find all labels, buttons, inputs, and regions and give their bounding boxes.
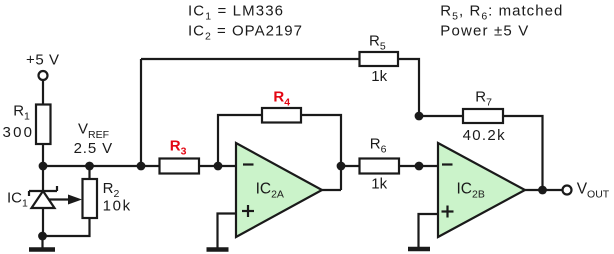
svg-text:1k: 1k: [371, 68, 387, 85]
wire R2 bottom to ground rail: [43, 218, 90, 236]
node ground rail: [38, 232, 47, 241]
wire node to R7: [419, 115, 463, 117]
resistor R1: [36, 105, 51, 145]
diode IC1 zener: [29, 186, 57, 208]
IC2B plus pin mark: [442, 206, 454, 218]
ground middle: [207, 247, 229, 252]
terminal VOUT: [563, 186, 572, 195]
wire +5V to R1: [42, 81, 44, 106]
wire R1 to bus: [42, 144, 44, 166]
resistor R4: [262, 108, 301, 123]
node R5 R7 junction: [415, 112, 424, 121]
wire R4 to output vertical: [301, 115, 341, 190]
svg-text:2.5 V: 2.5 V: [74, 140, 113, 157]
resistor R5: [360, 52, 399, 66]
IC2A minus pin mark: [243, 163, 254, 165]
wire output node to R6: [341, 165, 360, 167]
wire R7 to output: [503, 116, 543, 190]
wire IC1 adjust arrow to R2 wiper: [49, 195, 82, 205]
IC2A plus pin mark: [242, 205, 254, 217]
svg-text:+5 V: +5 V: [26, 52, 59, 69]
node R2 top: [85, 162, 94, 171]
svg-text:1k: 1k: [371, 176, 387, 193]
wire bus node to R2: [88, 166, 90, 179]
node bus to top rail: [137, 162, 146, 171]
svg-text:10k: 10k: [103, 198, 131, 215]
ground right: [408, 247, 430, 252]
node VREF bus left: [39, 162, 48, 171]
node IC2B output: [538, 186, 547, 195]
wire IC2A noninverting input to ground: [218, 214, 237, 249]
node R6 IC2B input: [415, 162, 424, 171]
terminal +5V: [39, 71, 48, 80]
wire feedback node to R4: [218, 115, 262, 166]
op-amp IC2A: [236, 143, 322, 237]
wire top rail to R5: [141, 58, 360, 60]
resistor R2: [83, 179, 98, 218]
svg-text:300: 300: [3, 124, 33, 141]
wire R6 to IC2B inverting input: [399, 165, 438, 167]
wire VREF bus: [43, 165, 160, 167]
resistor R7: [463, 109, 503, 123]
wire IC2B noninverting input to ground: [419, 214, 439, 247]
svg-text:Power ±5 V: Power ±5 V: [440, 23, 528, 40]
wire IC2A output: [322, 189, 341, 191]
wire IC2B output to terminal: [525, 189, 563, 191]
wire bus node to zener IC1: [42, 166, 44, 191]
IC2B minus pin mark: [442, 163, 453, 165]
wire node to ground: [41, 236, 43, 248]
ground left: [29, 247, 55, 252]
wire R5 to corner: [398, 59, 419, 116]
wire node to top rail: [140, 59, 142, 166]
svg-text:40.2k: 40.2k: [463, 127, 506, 144]
node IC2A output R6 tap: [337, 162, 346, 171]
resistor R6: [360, 159, 400, 174]
wire IC1 anode to bottom node: [42, 208, 44, 236]
node IC2A inverting input: [214, 162, 223, 171]
resistor R3: [160, 159, 200, 174]
op-amp IC2B: [438, 143, 525, 237]
wire R3 to IC2A inverting input: [199, 165, 236, 167]
